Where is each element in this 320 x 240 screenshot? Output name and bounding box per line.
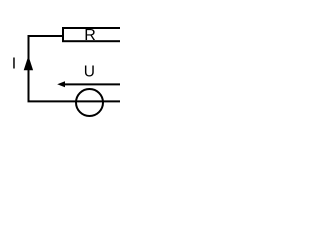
resistor label R	[84, 27, 96, 44]
svg-text:U: U	[84, 64, 95, 81]
current arrow I head	[24, 56, 33, 71]
current label I	[12, 56, 16, 73]
voltage label U	[84, 64, 95, 81]
wire left vertical	[28, 35, 30, 102]
wire bottom	[28, 100, 121, 102]
resistor R body	[63, 28, 125, 41]
voltage arrow U head	[57, 81, 65, 87]
svg-text:R: R	[84, 27, 96, 44]
wire top (top-left node to resistor)	[28, 35, 64, 37]
svg-text:I: I	[12, 56, 16, 73]
voltage arrow U shaft	[62, 83, 120, 85]
source circle	[76, 89, 103, 116]
